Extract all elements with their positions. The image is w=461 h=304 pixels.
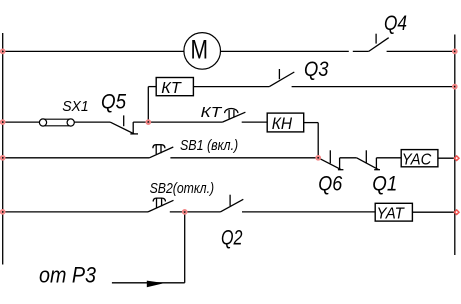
svg-text:SB2(откл.): SB2(откл.) xyxy=(150,181,215,197)
svg-text:Q4: Q4 xyxy=(384,12,407,35)
svg-text:YAT: YAT xyxy=(377,206,405,223)
svg-text:Q3: Q3 xyxy=(304,58,329,81)
svg-text:КН: КН xyxy=(272,115,292,133)
svg-text:M: M xyxy=(191,34,209,64)
svg-text:YAC: YAC xyxy=(402,152,432,169)
svg-text:Q5: Q5 xyxy=(101,91,126,114)
svg-text:КТ: КТ xyxy=(201,104,224,121)
svg-text:Q1: Q1 xyxy=(372,173,397,196)
svg-text:КТ: КТ xyxy=(161,80,182,97)
svg-text:SB1 (вкл.): SB1 (вкл.) xyxy=(180,138,238,154)
svg-text:SX1: SX1 xyxy=(62,98,88,115)
svg-text:Q2: Q2 xyxy=(221,227,243,250)
svg-text:от Р3: от Р3 xyxy=(39,263,96,288)
svg-text:Q6: Q6 xyxy=(318,173,342,196)
